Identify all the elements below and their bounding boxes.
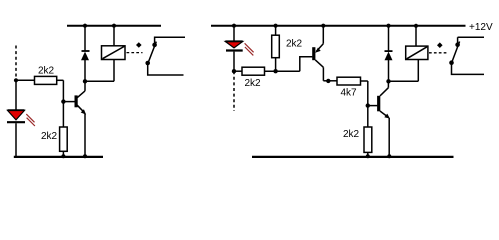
svg-text:2k2: 2k2 [244,78,261,89]
svg-text:2k2: 2k2 [41,131,58,142]
svg-text:2k2: 2k2 [286,39,303,50]
svg-text:4k7: 4k7 [340,87,357,98]
svg-text:+12V: +12V [469,22,493,33]
svg-text:2k2: 2k2 [343,129,360,140]
svg-text:2k2: 2k2 [38,66,55,77]
